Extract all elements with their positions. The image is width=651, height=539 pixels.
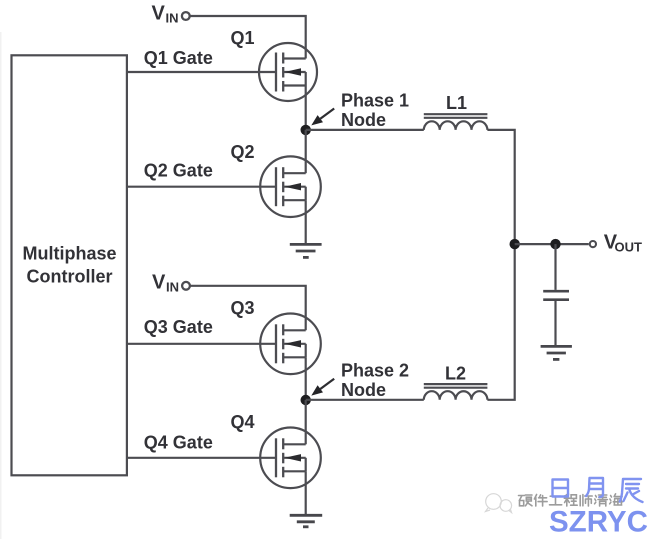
watermark blue brand 日月辰 (drawn strokes) xyxy=(553,478,643,502)
svg-text:IN: IN xyxy=(166,11,179,26)
svg-text:Controller: Controller xyxy=(26,267,112,287)
wire Q4 gate xyxy=(127,457,276,459)
junction dot at cap branch xyxy=(550,239,560,249)
arrow to phase1 node xyxy=(311,109,334,126)
svg-text:L2: L2 xyxy=(445,363,466,383)
硬 xyxy=(519,495,533,506)
svg-text:Q3 Gate: Q3 Gate xyxy=(144,317,213,337)
watermark wechat icon xyxy=(486,494,512,513)
svg-text:Node: Node xyxy=(341,380,386,400)
月 xyxy=(586,478,603,497)
transistor Q2 xyxy=(260,156,321,217)
日 xyxy=(553,480,569,497)
inductor L1 xyxy=(424,114,488,130)
工 xyxy=(550,496,562,505)
wire bus to Vout terminal xyxy=(515,243,589,245)
wire phase1 node to Q2 drain xyxy=(305,130,307,173)
svg-text:L1: L1 xyxy=(446,93,467,113)
svg-text:IN: IN xyxy=(166,280,179,295)
controller box U1 xyxy=(12,55,127,475)
svg-text:Q1: Q1 xyxy=(231,28,255,48)
svg-text:SZRYC: SZRYC xyxy=(549,506,648,539)
wire L1 to output bus and down to L2 xyxy=(487,130,514,400)
svg-text:V: V xyxy=(152,272,166,294)
师 xyxy=(580,495,592,507)
Vout terminal xyxy=(590,241,596,247)
junction dot on output bus xyxy=(510,239,520,249)
svg-text:V: V xyxy=(152,3,166,25)
svg-text:Q1 Gate: Q1 Gate xyxy=(144,48,213,68)
arrow to phase2 node xyxy=(311,379,334,396)
wire phase2 node to Q4 drain xyxy=(305,400,307,444)
wire Q1 source to phase1 node xyxy=(305,86,307,130)
ground under Q4 xyxy=(290,515,323,527)
Vin label (top) xyxy=(152,3,179,26)
ground under capacitor xyxy=(541,346,572,359)
capacitor C1 xyxy=(543,291,569,300)
label Vout xyxy=(604,232,642,255)
node Phase 2 (junction dot) xyxy=(301,395,311,405)
wire cap branch down xyxy=(554,244,556,290)
wire Vin bottom to Q3 drain xyxy=(190,286,306,331)
svg-text:Q4 Gate: Q4 Gate xyxy=(144,432,213,452)
label Phase 2 Node xyxy=(341,360,409,400)
watermark text: 硬件工程师清海 (drawn strokes) xyxy=(519,494,623,506)
wire cap to ground xyxy=(554,301,556,346)
controller label xyxy=(22,244,116,287)
wire Q1 gate xyxy=(127,71,276,73)
ground under Q2 xyxy=(290,244,322,257)
svg-text:Q3: Q3 xyxy=(231,298,255,318)
wire Q2 gate xyxy=(127,186,276,188)
清 xyxy=(595,494,608,506)
wire Q4 source to ground xyxy=(305,471,307,515)
Vin terminal (top) xyxy=(182,12,190,20)
Vin terminal (bottom) xyxy=(182,282,190,290)
wire Q2 source to ground xyxy=(305,200,307,244)
海 xyxy=(610,494,623,505)
transistor Q3 xyxy=(260,314,321,375)
svg-text:Node: Node xyxy=(341,110,386,130)
svg-text:Q4: Q4 xyxy=(231,412,255,432)
程 xyxy=(564,494,577,506)
wire phase1 node to L1 xyxy=(306,129,424,131)
inductor L2 xyxy=(424,384,488,400)
wire Q3 source to phase2 node xyxy=(305,357,307,400)
辰 xyxy=(620,479,643,502)
件 xyxy=(534,495,547,507)
Vin label (bottom) xyxy=(152,272,179,295)
wire Q3 gate xyxy=(127,343,276,345)
svg-text:Q2 Gate: Q2 Gate xyxy=(144,161,213,181)
svg-text:Q2: Q2 xyxy=(231,142,255,162)
label Phase 1 Node xyxy=(341,90,409,130)
transistor Q4 xyxy=(260,428,321,489)
node Phase 1 (junction dot) xyxy=(301,125,311,135)
svg-text:Phase 1: Phase 1 xyxy=(341,90,409,110)
wire Vin top to Q1 drain xyxy=(190,16,306,59)
svg-text:Multiphase: Multiphase xyxy=(22,244,116,264)
svg-text:OUT: OUT xyxy=(615,240,643,255)
transistor Q1 xyxy=(259,43,317,101)
svg-text:Phase 2: Phase 2 xyxy=(341,360,409,380)
wire phase2 node to L2 xyxy=(306,399,424,401)
